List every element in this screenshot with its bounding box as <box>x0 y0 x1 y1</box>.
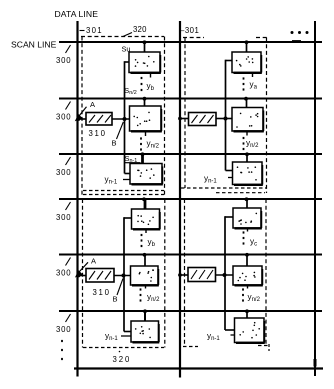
wire data line 1 (vertical) <box>76 21 78 377</box>
svg-text:300: 300 <box>56 325 71 334</box>
wire U5L bottom stub <box>145 285 147 289</box>
junction dot scan line 5 at x247 <box>245 253 249 257</box>
vertical ellipsis below U4R <box>243 231 245 244</box>
pixel circuit box U1R <box>232 52 262 73</box>
label yn-1 row6 right leader dash <box>231 334 235 336</box>
vertical ellipsis below U5R <box>242 288 244 301</box>
junction blob data line 1 row 5 <box>77 274 81 278</box>
svg-text:–301: –301 <box>180 26 199 35</box>
wire data line 2 (vertical) <box>179 21 181 378</box>
wire left internal vertical block1 <box>124 61 126 173</box>
wire pixel U4R top pin <box>246 199 248 208</box>
wire resistor to node right block2 <box>216 274 234 276</box>
junction blob data line 2 row 2 <box>178 117 182 121</box>
svg-text:yn/2: yn/2 <box>246 139 259 149</box>
label 320 bottom tick <box>119 351 121 353</box>
resistor element hatched box right block1 <box>189 113 217 126</box>
svg-text:B: B <box>112 139 117 148</box>
wire bottom scan line 7 <box>74 367 323 369</box>
junction blob data line 1 row 2 <box>77 117 81 121</box>
svg-text:310: 310 <box>93 288 111 297</box>
wire pixel U3R top pin <box>246 154 248 162</box>
svg-text:yc: yc <box>250 237 257 247</box>
wire data line 1 to resistor 310 block1 <box>78 118 86 120</box>
wire U2R bottom stub <box>246 131 248 136</box>
svg-text:Su: Su <box>122 44 131 53</box>
vertical ellipsis below last 300 <box>61 340 63 360</box>
dashed box -301 top-right: top edge right part <box>256 37 267 39</box>
wire pixel U2R top pin <box>246 99 248 108</box>
wire resistor to node B right block1 <box>216 118 232 120</box>
dashed box 301/320 top-left: top edge <box>81 36 164 38</box>
dashed box 320 bottom-left: bottom edge <box>83 347 164 349</box>
wire resistor 310 to node B block1 <box>112 118 130 120</box>
arrow A block2 head <box>75 270 83 277</box>
dashed box bottom-right: left edge <box>184 199 186 347</box>
svg-text:yn/2: yn/2 <box>147 293 160 303</box>
label 320 top leader <box>123 33 132 37</box>
dashed box -301 top-right: bottom edge <box>181 187 267 189</box>
pixel circuit box U3R <box>233 162 263 185</box>
junction dot scan line 6 / U6L pin <box>143 309 147 313</box>
label Sn-1 underline <box>125 162 141 164</box>
pixel circuit box U4R <box>233 208 262 228</box>
wire pixel U5L top pin <box>144 255 146 267</box>
wire pixel U6L top pin <box>144 311 146 321</box>
wire data line 1 to resistor 310 block2 <box>78 275 86 277</box>
svg-text:A: A <box>90 100 95 109</box>
svg-text:yn-1: yn-1 <box>204 174 217 184</box>
vertical ellipsis below U4L <box>141 234 143 247</box>
junction dot scan line 4 / U4L pin <box>142 197 146 201</box>
label B block1 leader <box>117 122 124 139</box>
pixel circuit box U2L <box>130 106 162 131</box>
node label 300 row 6 leader slash <box>66 314 71 322</box>
vertical ellipsis below U5L <box>140 288 142 301</box>
junction blob data line 2 row 5 <box>178 273 182 277</box>
junction dot scan line 1 / U1R pin <box>245 40 249 44</box>
label yn-1 row6 left leader dash <box>121 335 131 337</box>
vertical ellipsis below U2L <box>140 137 142 150</box>
svg-text:SCAN LINE: SCAN LINE <box>11 40 57 50</box>
junction dot scan line 3 / U3R pin <box>245 152 249 156</box>
svg-text:301: 301 <box>86 26 103 35</box>
node label 300 row 2 leader slash <box>66 102 71 110</box>
wire internal vertical into U3L <box>125 173 131 175</box>
svg-text:yb: yb <box>148 238 156 248</box>
pixel circuit box U6L <box>131 321 159 342</box>
svg-text:yn-1: yn-1 <box>207 332 220 342</box>
junction dot node right block1 <box>224 117 228 121</box>
svg-text:300: 300 <box>56 269 71 278</box>
svg-text:310: 310 <box>89 129 107 138</box>
wire right internal vertical block1 <box>225 60 227 171</box>
svg-text:B: B <box>113 295 118 304</box>
arrow A block2 leader <box>79 262 88 272</box>
wire internal vertical into U3R <box>226 170 233 172</box>
pixel circuit box U1L <box>129 52 161 73</box>
svg-text:ya: ya <box>250 80 258 90</box>
wire scan line 5 (horizontal) <box>59 253 322 255</box>
svg-text:yn-1: yn-1 <box>105 175 118 185</box>
svg-text:Sn/2: Sn/2 <box>124 86 136 96</box>
svg-text:320: 320 <box>133 25 147 34</box>
node label 300 row 1 leader slash <box>66 45 71 53</box>
wire internal vertical into U6R <box>225 329 235 331</box>
wire U2L bottom stub <box>145 131 147 136</box>
junction dot node right block2 <box>223 273 227 277</box>
junction dot scan line 1 / pixel U1L pin <box>143 40 147 44</box>
horizontal ellipsis dots top right <box>291 31 309 34</box>
wire U1L left stub <box>125 61 130 63</box>
dashed box 301/320 top-left: bottom edge <box>83 194 164 196</box>
dashed box 320 bottom-left: left edge <box>82 199 84 348</box>
junction dot node B block2 <box>122 274 126 278</box>
resistor element 310 block1 (hatched box) <box>86 113 112 126</box>
wire scan line 4 (horizontal) <box>59 198 322 200</box>
svg-text:yn/2: yn/2 <box>147 139 160 149</box>
dashed box 301/320 top-left: left edge <box>81 37 83 196</box>
junction dot scan line 3 / U3L pin <box>141 152 145 156</box>
dashed box 301/320 top-left: right edge <box>164 37 166 196</box>
pixel circuit box U2R <box>232 108 264 132</box>
arrow A block1 leader <box>79 107 87 116</box>
junction dot scan line 2 at x246.5 <box>244 97 248 101</box>
dashed box bottom-right: bottom edge right corner <box>258 344 270 351</box>
junction dot scan line 2 at x144.5 <box>143 97 147 101</box>
wire U1R left stub <box>226 60 233 62</box>
svg-text:yb: yb <box>147 82 155 92</box>
svg-text:yn/2: yn/2 <box>248 293 261 303</box>
wire U1R bottom stub <box>252 73 254 78</box>
wire pixel U2L top pin <box>144 99 146 107</box>
pixel circuit box U5R <box>233 266 263 285</box>
svg-text:300: 300 <box>56 213 71 222</box>
label yn-1 row3 left leader dash <box>123 179 130 181</box>
wire scan line 6 (horizontal) <box>59 310 322 312</box>
junction dot scan line 5 at x145 <box>143 253 147 257</box>
dashed box -301 top-right: left edge <box>184 38 186 189</box>
wire pixel U1R top pin <box>246 42 248 52</box>
pixel circuit box U6R <box>235 318 265 343</box>
node label 300 row 5 leader slash <box>66 258 71 266</box>
dashed box -301 top-right: top edge left part <box>183 37 204 39</box>
svg-text:300: 300 <box>56 113 71 122</box>
wire data line 2 to resistor 310R1 <box>180 118 189 120</box>
dashed box -301 top-right: inner bottom edge <box>216 192 265 194</box>
wire data line 2 to resistor 310R2 <box>180 274 188 276</box>
svg-text:300: 300 <box>56 56 71 65</box>
wire scan line 1 (horizontal) <box>59 41 322 43</box>
svg-text:DATA LINE: DATA LINE <box>55 9 99 19</box>
arrow A block1 head <box>75 114 83 121</box>
wire internal vertical into U6L <box>124 331 131 333</box>
wire U4R bottom stub <box>247 228 249 232</box>
wire U4L bottom stub <box>145 229 147 233</box>
svg-text:yn-1: yn-1 <box>105 332 118 342</box>
pixel circuit box U4L <box>132 209 161 229</box>
pixel circuit box U5L <box>131 266 159 285</box>
wire scan line 2 (horizontal) <box>59 97 322 99</box>
junction dot node B block1 <box>123 117 127 121</box>
vertical ellipsis below U1L <box>141 77 143 91</box>
junction dot scan line 6 / U6R pin <box>245 309 249 313</box>
junction dot scan line 4 / U4R pin <box>245 197 249 201</box>
label 301 leader dash <box>80 30 85 32</box>
dashed box -301 top-right: right edge <box>266 38 268 194</box>
svg-text:320: 320 <box>113 355 132 364</box>
wire scan line 3 (horizontal) <box>59 153 322 155</box>
dashed box bottom-right: bottom edge left corner <box>183 346 198 348</box>
wire U4L left stub <box>124 217 132 219</box>
dashed box 320 bottom-left: right edge <box>164 199 166 348</box>
dashed box bottom-right: right edge <box>265 199 267 345</box>
wire U5R bottom stub <box>247 285 249 289</box>
resistor element 310 block2 (hatched box) <box>86 269 114 283</box>
wire scan line 1 overdraw tick right <box>292 40 301 42</box>
resistor element hatched box right block2 <box>188 268 216 282</box>
dashed box 301/320 top-left: inner bottom edge <box>83 190 164 192</box>
wire U4R left stub <box>225 216 233 218</box>
svg-text:300: 300 <box>56 168 71 177</box>
vertical ellipsis below U2R <box>243 137 245 150</box>
wire left internal vertical block2 <box>123 217 125 331</box>
node label 300 row 4 leader slash <box>66 202 71 210</box>
vertical ellipsis below U1R <box>243 77 245 90</box>
pixel circuit box U3L <box>130 164 163 185</box>
label B block2 leader <box>117 279 123 296</box>
wire pixel U4L top pin (thick) <box>144 199 147 209</box>
wire resistor 310 to node B block2 <box>114 275 131 277</box>
wire right edge column line <box>314 21 316 376</box>
wire pixel U6R top pin <box>246 311 248 318</box>
label yn-1 row3 right leader dash <box>228 177 233 179</box>
wire pixel U5R top pin <box>246 255 248 267</box>
wire right column line thickening above bottom <box>314 359 317 367</box>
wire right internal vertical block2 <box>224 216 226 330</box>
wire U1L bottom stub <box>150 73 152 78</box>
node label 300 row 3 leader slash <box>66 157 71 165</box>
wire pixel U3L top pin (thick) <box>141 154 144 164</box>
wire pixel U1L top pin <box>144 42 146 52</box>
svg-text:A: A <box>91 256 96 265</box>
